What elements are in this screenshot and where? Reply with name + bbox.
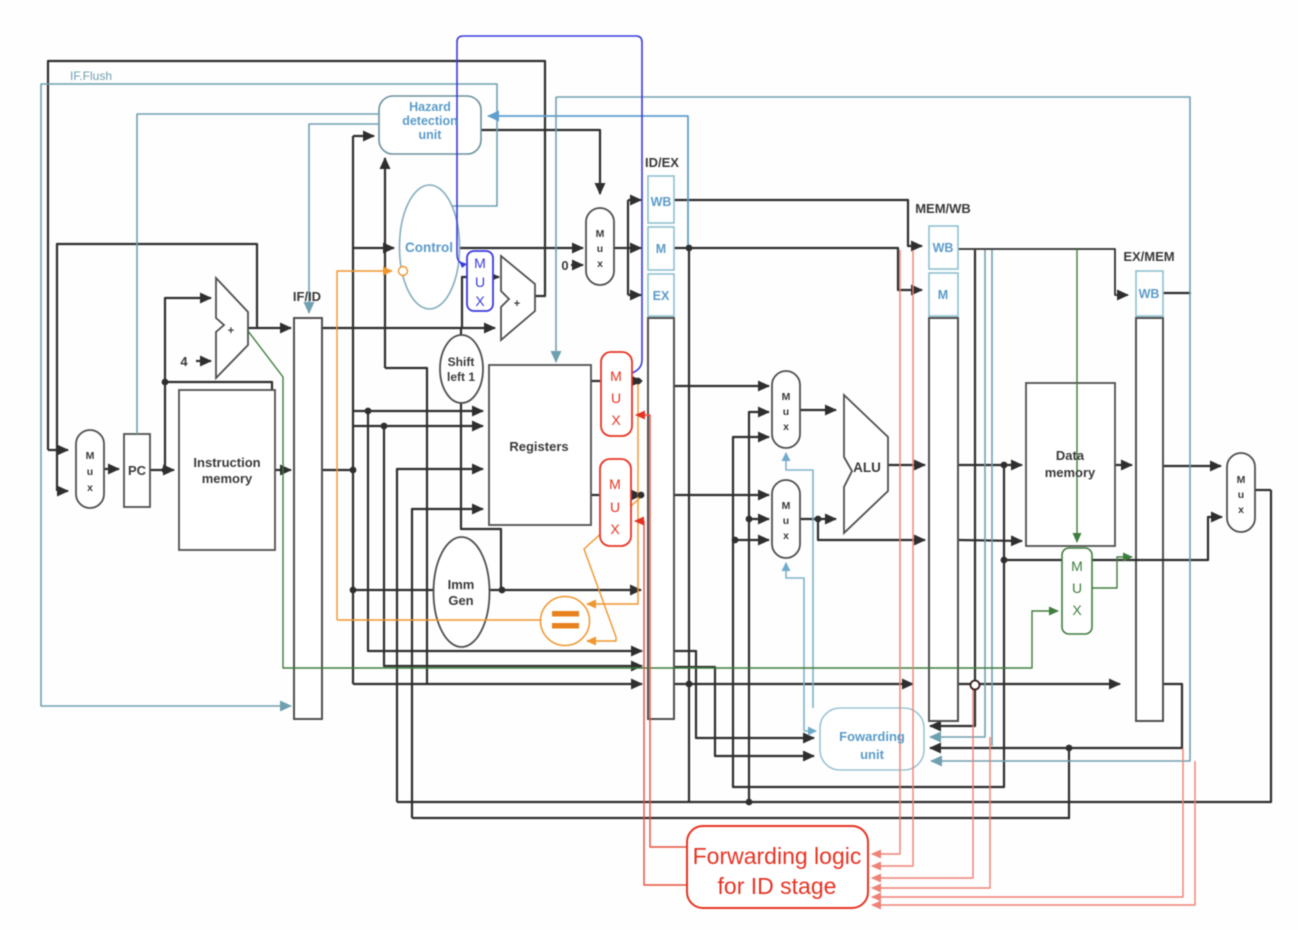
- svg-text:WB: WB: [933, 241, 954, 255]
- node orange open circle: [399, 267, 408, 276]
- wire ALU output into MEM/WB: [888, 464, 925, 466]
- register EX/MEM WB field: [1136, 271, 1163, 316]
- wire MEM/WB rd tap 2: [991, 250, 993, 746]
- wire node to forwarding unit right input: [930, 686, 975, 726]
- wire ForwardB select: [786, 563, 804, 731]
- wire red tap WB rd: [872, 761, 1195, 905]
- wire orange tap of red MUX2 output: [584, 497, 641, 641]
- svg-text:X: X: [611, 412, 621, 428]
- wire orange tap of red MUX1 output: [587, 383, 638, 604]
- svg-text:Instruction: Instruction: [193, 455, 260, 470]
- svg-text:M: M: [86, 450, 95, 462]
- svg-text:M: M: [782, 391, 791, 403]
- wire memory write data around to data memory: [818, 519, 925, 540]
- svg-text:Imm: Imm: [448, 577, 475, 592]
- wire WB data forward vertical: [749, 412, 769, 802]
- svg-text:x: x: [1238, 504, 1244, 516]
- adder PC+4: [216, 278, 248, 378]
- svg-text:U: U: [610, 499, 620, 515]
- register PC: [124, 434, 150, 507]
- comparator equals: [541, 597, 590, 646]
- register ID/EX WB field: [648, 176, 674, 223]
- wire hazard to PC write: [137, 114, 379, 434]
- register ID/EX M field: [648, 227, 674, 270]
- wire read register 1: [353, 410, 483, 412]
- svg-text:0: 0: [561, 258, 568, 273]
- svg-text:X: X: [1072, 602, 1082, 618]
- svg-text:unit: unit: [419, 128, 443, 142]
- wire write-register bus: [412, 817, 1070, 819]
- svg-text:X: X: [475, 293, 485, 309]
- wire constant 4 into adder1: [196, 360, 211, 362]
- wire rd line into ID/EX: [353, 683, 642, 685]
- svg-text:Control: Control: [405, 240, 453, 255]
- wire instruction bus from IF/ID: [322, 469, 353, 471]
- wire red tap M field: [872, 250, 913, 866]
- svg-text:x: x: [87, 482, 93, 494]
- imm gen: [434, 537, 490, 647]
- wire instruction to ImmGen: [353, 589, 433, 591]
- svg-text:U: U: [611, 390, 621, 406]
- wire write-data vertical into Registers: [397, 469, 483, 802]
- wire red MUX1 output into ID/EX: [632, 380, 642, 382]
- register EX/MEM lower section: [1136, 318, 1163, 721]
- wire red tap WB field: [872, 250, 900, 854]
- wire ID/EX rs1 to forwarding unit: [674, 651, 814, 738]
- svg-text:EX/MEM: EX/MEM: [1123, 249, 1174, 264]
- wire EX/MEM output to WB mux upper input: [1163, 465, 1221, 467]
- wire orange comparator output to control: [337, 271, 392, 620]
- wire IF.Flush teal net: [41, 84, 497, 706]
- wire ID/EX read data 2 to ALU mux B: [674, 494, 769, 496]
- svg-text:U: U: [1072, 580, 1082, 596]
- wire hazard to IF/ID write: [309, 124, 379, 313]
- svg-text:u: u: [783, 515, 789, 527]
- svg-text:M: M: [596, 228, 605, 240]
- wire red select for MUX1: [636, 415, 687, 847]
- wire IF/ID PC value to branch adder lower input: [322, 327, 495, 329]
- svg-text:u: u: [597, 243, 603, 255]
- register MEM/WB M field: [929, 273, 958, 316]
- svg-text:WB: WB: [651, 195, 672, 209]
- svg-text:Gen: Gen: [448, 593, 473, 608]
- wire ForwardB into unit edge: [804, 730, 816, 732]
- register ID/EX lower section: [648, 318, 674, 719]
- wire shift-left-1 output stub: [460, 328, 462, 335]
- wire hazard unit bottom input riser: [384, 158, 386, 368]
- registers file: [489, 365, 591, 525]
- svg-text:u: u: [783, 406, 789, 418]
- svg-text:for ID stage: for ID stage: [718, 873, 837, 899]
- svg-text:ALU: ALU: [853, 460, 881, 475]
- wire ALU mux B output: [800, 518, 836, 520]
- svg-text:EX: EX: [653, 289, 670, 303]
- wire instruction vertical trunk: [352, 136, 354, 684]
- wire instruction into hazard detection unit: [353, 135, 374, 137]
- svg-text:M: M: [1237, 474, 1246, 486]
- wire hazard unit output to pipeline mux select: [481, 130, 600, 194]
- wire read register 2: [353, 425, 483, 427]
- mux blue (branch PC select): [467, 251, 493, 311]
- svg-text:U: U: [475, 274, 485, 290]
- wire M-field vertical down to bus: [688, 248, 690, 802]
- wire PC tap over instruction memory: [165, 382, 272, 390]
- svg-text:ID/EX: ID/EX: [645, 155, 679, 170]
- wire red select for MUX2: [635, 521, 687, 885]
- wire ImmGen output riser to shift-left-1: [461, 403, 501, 590]
- wire ID/EX M field to MEM/WB: [674, 248, 922, 290]
- wire ALU result bypass down and around: [733, 437, 1004, 787]
- label equals: [552, 611, 579, 629]
- svg-text:IF/ID: IF/ID: [293, 289, 321, 304]
- svg-text:M: M: [782, 500, 791, 512]
- wire MEM/WB rd tap 1 to forwarding unit: [930, 250, 985, 737]
- svg-text:memory: memory: [202, 471, 253, 486]
- svg-text:+: +: [514, 298, 520, 310]
- adder branch target: [501, 256, 535, 340]
- svg-text:PC: PC: [128, 463, 147, 478]
- node open circle on rd line: [971, 681, 980, 690]
- wire instruction into Control: [353, 247, 394, 249]
- svg-text:M: M: [609, 476, 621, 492]
- svg-text:M: M: [610, 368, 622, 384]
- wire write-register vertical into Registers: [412, 509, 483, 818]
- svg-text:Registers: Registers: [509, 439, 568, 454]
- wire ImmGen output into ID/EX: [490, 589, 641, 591]
- svg-text:u: u: [87, 466, 93, 478]
- wire green PC+4 to green mux: [248, 331, 1058, 668]
- svg-text:X: X: [610, 521, 620, 537]
- svg-text:M: M: [474, 255, 486, 271]
- svg-text:Data: Data: [1056, 448, 1085, 463]
- svg-text:x: x: [783, 421, 789, 433]
- register IF/ID: [294, 318, 322, 719]
- svg-text:IF.Flush: IF.Flush: [70, 69, 112, 83]
- data memory: [1026, 383, 1115, 546]
- register MEM/WB lower section: [929, 318, 958, 721]
- wire zero constant into pipeline mux: [571, 264, 583, 266]
- wire instruction memory output to IF/ID: [275, 469, 291, 471]
- control oval: [400, 185, 460, 309]
- wire ForwardA select: [786, 453, 813, 708]
- wire MEM/WB WB field to EX/MEM: [958, 249, 1128, 295]
- wire arrow into PC mux input 1: [48, 449, 68, 451]
- svg-text:detection: detection: [402, 114, 458, 128]
- wire bypass to WB mux lower input: [1004, 517, 1222, 560]
- wire WB forward into mux B: [749, 518, 769, 520]
- wire tap down to write-register bus: [1068, 748, 1070, 818]
- shift left 1: [440, 335, 483, 403]
- svg-text:x: x: [597, 258, 603, 270]
- svg-text:Hazard: Hazard: [409, 100, 451, 114]
- wire green mux output to EX/MEM: [1092, 557, 1132, 588]
- mux green (memory bypass): [1062, 548, 1092, 634]
- wire ALU forward into mux B: [735, 539, 769, 541]
- wire red tap MEM/WB rd: [872, 737, 990, 888]
- mux write-back (right): [1227, 453, 1255, 532]
- wire rd line MEM/WB to EX/MEM: [958, 683, 1120, 685]
- wire registers read data 2 to red MUX: [591, 494, 599, 496]
- hazard detection unit: [379, 96, 481, 154]
- mux pipeline-bubble (top): [586, 208, 614, 285]
- wire WB control net to registers write: [555, 97, 557, 362]
- svg-text:Fowarding: Fowarding: [839, 729, 905, 744]
- wire registers read data 1 to red MUX: [591, 380, 600, 382]
- wire rd line ID/EX to MEM/WB: [674, 683, 913, 685]
- svg-text:+: +: [228, 325, 234, 337]
- wire orange into comparator left: [337, 619, 541, 621]
- wire WB mux output: [1255, 489, 1271, 491]
- svg-text:u: u: [1238, 489, 1244, 501]
- box forwarding logic for ID stage: [687, 826, 868, 908]
- svg-text:x: x: [783, 530, 789, 542]
- wire rd line around EX/MEM down to forwarding unit: [930, 684, 1182, 748]
- wire riser to branch adder top input: [462, 277, 499, 328]
- wire write-back data bus: [397, 490, 1271, 802]
- wire rs2 field down to ID/EX: [384, 426, 642, 666]
- instruction memory: [179, 390, 275, 550]
- mux red 2 (forward rs2 for branch): [600, 459, 631, 546]
- wire arrow into PC mux input 2: [57, 490, 68, 492]
- mux red 1 (forward rs1 for branch): [601, 352, 632, 436]
- wire rs1 field down to ID/EX: [368, 411, 642, 651]
- svg-text:unit: unit: [860, 747, 884, 762]
- wire red tap rd node: [872, 686, 973, 878]
- wire pipeline mux output fan: [614, 247, 628, 249]
- mux PC-source (left): [76, 430, 104, 508]
- wire node vertical above: [974, 250, 976, 686]
- wire blue path from branch mux: [457, 36, 642, 373]
- wire red MUX2 output into ID/EX: [631, 494, 642, 496]
- register MEM/WB WB field: [929, 226, 958, 269]
- wire ID/EX read data 1 to ALU mux A: [674, 385, 769, 387]
- wire branch-target loop: adder2 output up over top frame to PC mux: [48, 61, 545, 450]
- wire PC output to instruction memory: [150, 469, 174, 471]
- svg-text:M: M: [938, 288, 948, 302]
- wire red tap EX/MEM rd: [872, 748, 1183, 897]
- ALU: [844, 395, 888, 533]
- wire into hazard unit right side: [488, 116, 688, 246]
- wire EX/MEM WB field out: [1163, 292, 1191, 294]
- svg-text:WB: WB: [1139, 287, 1160, 301]
- wire jog to rd vertical: [385, 368, 427, 684]
- wire PC mux output to PC: [104, 468, 119, 470]
- wire data memory output into EX/MEM: [1115, 464, 1132, 466]
- mux ALU operand B: [772, 480, 800, 558]
- svg-text:Forwarding logic: Forwarding logic: [693, 843, 862, 869]
- wire ALU mux A output: [800, 409, 836, 411]
- svg-text:M: M: [1071, 558, 1083, 574]
- forwarding unit: [820, 708, 924, 770]
- register ID/EX EX field: [648, 274, 674, 316]
- wire PC+4 loop: adder1 output up over inner frame to PC mux: [57, 244, 257, 491]
- svg-text:M: M: [656, 242, 666, 256]
- svg-text:Shift: Shift: [448, 355, 475, 369]
- svg-text:left 1: left 1: [447, 370, 475, 384]
- wire ID/EX rs2 to forwarding unit: [674, 667, 814, 756]
- wire Control output to pipeline mux: [459, 247, 583, 249]
- svg-text:memory: memory: [1045, 465, 1096, 480]
- wire PC up to adder1 top input: [165, 298, 211, 470]
- svg-text:MEM/WB: MEM/WB: [915, 201, 971, 216]
- wire ID/EX WB field to MEM/WB: [674, 200, 922, 246]
- wire ALU result to data memory address: [958, 464, 1022, 466]
- mux ALU operand A: [772, 371, 800, 448]
- svg-text:4: 4: [180, 354, 188, 369]
- wire adder1 output to IF/ID: [248, 327, 291, 329]
- wire green tap from WB line through data memory: [1076, 249, 1078, 542]
